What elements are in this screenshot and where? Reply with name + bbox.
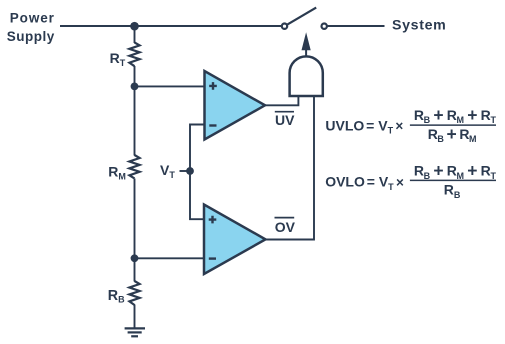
svg-text:Supply: Supply xyxy=(7,29,55,44)
svg-text:VT: VT xyxy=(160,162,175,180)
svg-text:RB + RM + RT: RB + RM + RT xyxy=(414,105,497,125)
wire: RM to RB xyxy=(134,179,136,282)
svg-text:OV: OV xyxy=(275,219,296,235)
wire: switch to system xyxy=(328,25,385,27)
label UV xyxy=(275,112,295,128)
wire: RB to ground xyxy=(134,305,136,329)
wire: junction to U1 + input xyxy=(135,85,205,87)
power supply label xyxy=(7,11,55,45)
node: RT/RM junction xyxy=(131,83,139,91)
resistor RM xyxy=(129,155,139,178)
label OV xyxy=(275,218,296,235)
formula OVLO xyxy=(325,161,496,200)
svg-text:UV: UV xyxy=(275,112,295,128)
U1 + pin mark xyxy=(209,82,217,90)
U2 + pin mark xyxy=(209,216,217,224)
wire: VT stub xyxy=(180,170,191,172)
wire: vertical rail top xyxy=(134,26,136,43)
comparator U2 xyxy=(204,205,266,275)
svg-text:Power: Power xyxy=(10,11,55,26)
wire: RT to RM xyxy=(134,66,136,156)
svg-text:RB: RB xyxy=(444,182,461,200)
ground xyxy=(125,328,145,336)
resistor RT xyxy=(129,42,139,66)
svg-text:RB + RM: RB + RM xyxy=(428,124,476,144)
formula UVLO xyxy=(325,105,496,144)
wire: U2 output to gate xyxy=(266,96,315,240)
wire: U1 output to gate xyxy=(265,96,298,105)
svg-text:UVLO = VT ×: UVLO = VT × xyxy=(325,117,403,135)
wire: U1 - input to VT rail xyxy=(190,125,204,172)
node: rail-top junction xyxy=(130,22,139,31)
arrow: gate output to switch xyxy=(302,32,311,56)
comparator U1 xyxy=(205,71,266,140)
node VT xyxy=(186,167,194,175)
U2 - pin mark xyxy=(209,257,216,259)
svg-text:RB: RB xyxy=(108,288,125,305)
node: RM/RB junction xyxy=(131,254,139,262)
wire: junction to U2 - input xyxy=(135,257,205,259)
wire: power supply to switch xyxy=(60,25,282,27)
wire: VT rail to U2 + input xyxy=(190,171,204,219)
svg-text:RT: RT xyxy=(110,50,126,68)
svg-text:System: System xyxy=(392,17,446,33)
AND gate U3 xyxy=(290,56,323,96)
svg-text:RM: RM xyxy=(108,164,126,182)
resistor RB xyxy=(129,281,139,305)
svg-text:OVLO = VT ×: OVLO = VT × xyxy=(325,174,404,192)
svg-text:RB + RM + RT: RB + RM + RT xyxy=(414,161,497,181)
U1 - pin mark xyxy=(209,124,216,126)
switch S1 xyxy=(282,8,327,29)
